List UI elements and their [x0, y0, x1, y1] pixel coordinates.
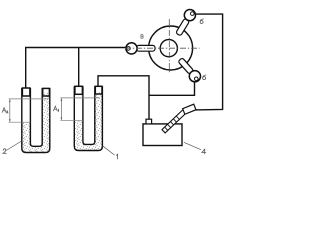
centerline horizontal [125, 47, 200, 49]
leader line to label 2 [6, 141, 21, 151]
plug ball left [126, 43, 137, 54]
battery box [143, 124, 182, 146]
dimension A2 extension lines [9, 98, 50, 100]
leader line to label 4 [184, 142, 201, 149]
centerline vertical [168, 19, 170, 74]
label A2 [2, 108, 8, 113]
plug stem left [137, 45, 156, 51]
dimension A1 extension lines [60, 97, 100, 99]
wire: drop to tube 2 left electrode [78, 48, 80, 87]
U-tube 1 right mouth cap [43, 88, 50, 96]
plug ball lower-right [189, 71, 200, 82]
label 2 [3, 149, 6, 154]
plug ball upper-right pin [191, 12, 195, 16]
wire: tube2 right electrode to battery terminal [98, 76, 149, 120]
plug stem lower-right [178, 58, 194, 75]
wire: branch to lower plug [149, 82, 195, 96]
U-tube 2 liquid fill [74, 86, 102, 151]
commutator outer circle [149, 26, 193, 70]
plug stem upper-right [176, 18, 190, 36]
dimension A2 arrow line [9, 99, 11, 122]
plug ball lower-right pin [195, 77, 199, 81]
label б lower [203, 75, 206, 80]
battery bar head [183, 104, 196, 114]
battery terminal [146, 119, 152, 124]
U-tube 2 glass outline [74, 86, 102, 150]
plug ball left pin [127, 47, 131, 51]
label 4 [202, 149, 206, 154]
label 1 [116, 154, 117, 159]
plug ball upper-right [184, 10, 195, 21]
dimension A1 arrow line [60, 98, 62, 120]
U-tube 2 right mouth cap [95, 86, 102, 94]
wire: upper plug to right side and down to battery bar [195, 14, 223, 110]
label в [141, 35, 143, 39]
U-tube 1 glass outline [22, 88, 50, 153]
leader line to label 1 [103, 146, 115, 155]
battery diagonal plate stack [162, 108, 188, 133]
label A1 [53, 106, 58, 112]
U-tube 1 left mouth cap [22, 88, 30, 96]
U-tube 1 liquid fill [22, 88, 50, 153]
U-tube 2 left mouth cap [75, 86, 83, 94]
label б upper [200, 19, 203, 24]
wire: top horizontal bus from tube1 to left plug [26, 48, 126, 89]
commutator hub inner circle [160, 40, 177, 57]
